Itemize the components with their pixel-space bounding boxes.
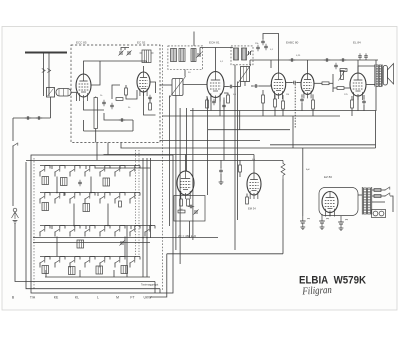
svg-text:EZ 80: EZ 80	[324, 175, 332, 179]
svg-text:ZF = 468 kHz: ZF = 468 kHz	[178, 234, 197, 238]
wire box1 pin down c	[120, 143, 122, 149]
wire top small drop	[249, 60, 251, 65]
UKW tuner shield box (dashed)	[71, 45, 160, 143]
row4 bus	[40, 256, 136, 258]
wire drop d5	[192, 108, 194, 240]
wire V2 pins down	[143, 92, 145, 108]
capacitor C25 det row	[264, 44, 268, 50]
wire tube HT out	[329, 213, 331, 217]
coil L 121,265	[121, 266, 128, 274]
wire drop d7	[223, 98, 225, 161]
wire R3 up	[125, 85, 127, 88]
mains tap 1	[372, 189, 385, 191]
resistor R13 V6 cathode	[351, 100, 354, 108]
resistor R2	[116, 98, 123, 101]
coupling capacitor C14	[291, 81, 297, 85]
smoothing choke wire	[292, 145, 294, 148]
junction dots	[56, 192, 58, 194]
wire V6 top	[357, 60, 359, 73]
bus line heater	[160, 140, 260, 142]
wire V3 top bus	[200, 47, 233, 49]
wire below F1	[184, 70, 186, 77]
wire V6 anode to T1	[358, 66, 375, 73]
socket trimmer	[193, 209, 198, 214]
wire interstage	[112, 85, 120, 99]
svg-text:M: M	[116, 296, 119, 300]
heater loop wire	[319, 188, 358, 216]
wire T1 bottom to bus	[366, 84, 375, 86]
resistor R3	[125, 88, 128, 95]
V8 feed resistor	[239, 165, 242, 172]
wire transformer to tube	[358, 194, 362, 196]
rectifier tube V9	[322, 192, 338, 217]
capacitor C1 in AM lead	[25, 116, 31, 120]
svg-text:KE: KE	[54, 296, 59, 300]
V7 socket detail box	[174, 196, 205, 222]
wire horizontal to AM input	[13, 117, 51, 119]
svg-text:1M: 1M	[286, 94, 289, 96]
grid stopper R9	[337, 87, 344, 90]
power transformer T2 core left	[361, 187, 363, 215]
wire V3 screen	[224, 93, 228, 95]
coil L 103,178	[103, 178, 110, 186]
variable coil L3 with core	[241, 67, 250, 82]
wire drop d9	[237, 82, 239, 221]
capacitor C6	[119, 118, 125, 122]
collector wire outer 1	[15, 223, 155, 282]
wire R1 top	[95, 97, 97, 98]
bus line h1	[121, 147, 376, 149]
row1 drops	[51, 166, 53, 170]
switch contact 115,263	[114, 260, 119, 264]
AVC dashed line	[294, 84, 296, 128]
F2 secondary coil	[242, 48, 247, 60]
wire drop d2	[175, 96, 177, 251]
wire speaker return	[375, 87, 377, 112]
capacitor C21	[253, 84, 259, 88]
wire V3 pin drop b	[219, 97, 221, 116]
bus line h2	[270, 144, 376, 146]
resistor R8	[322, 82, 329, 85]
HT feed vertical	[302, 148, 304, 216]
wire V4 out	[286, 82, 292, 84]
svg-text:Tastenaggregat: Tastenaggregat	[141, 284, 159, 287]
dashed shield line	[162, 45, 164, 291]
switch contact 85,232	[84, 229, 89, 233]
svg-text:EM 34: EM 34	[248, 207, 256, 211]
wire UKW out to L4	[160, 84, 172, 86]
switch box vertical v4	[126, 226, 128, 278]
capacitor C2 in AM lead	[36, 116, 42, 120]
switch contact 130,263	[129, 260, 134, 264]
wire V5 out	[314, 82, 322, 84]
wire V5 top	[307, 60, 309, 74]
capacitor C15	[300, 97, 304, 103]
svg-text:FT: FT	[130, 296, 134, 300]
wire box bottom link	[84, 130, 134, 132]
return bus left drop	[150, 254, 167, 297]
capacitor C7	[212, 99, 216, 105]
row2 resistor	[119, 201, 122, 207]
electrolytic C17	[300, 216, 310, 227]
electrolytic C19	[338, 216, 348, 228]
resistor R11	[282, 101, 285, 109]
svg-text:EL 84: EL 84	[353, 41, 361, 45]
wire drop d6	[207, 98, 209, 196]
socket cap	[188, 205, 194, 209]
F2 trimmer	[247, 50, 252, 55]
capacitor C12	[334, 63, 338, 69]
wire V2 right	[150, 82, 156, 93]
coil L 83,203	[83, 204, 90, 212]
band switch assembly outline	[31, 155, 173, 293]
switch contact 55,199	[54, 196, 59, 200]
switch contact 40,172	[39, 169, 44, 173]
switch contact 40,199	[39, 196, 44, 200]
wire V4 left grid	[270, 84, 272, 86]
switch box bottom joins	[154, 282, 156, 294]
switch contact 115,232	[114, 229, 119, 233]
AF tube V5	[301, 74, 314, 99]
grid resistor R1	[94, 98, 97, 129]
detector branch	[220, 160, 222, 168]
switch contact 130,232	[129, 229, 134, 233]
coil L 42,265	[42, 266, 49, 274]
volume pot R7	[341, 71, 344, 80]
switch contact 100,172	[99, 169, 104, 173]
wire V2 anode down	[144, 108, 156, 115]
capacitor C4	[110, 103, 114, 109]
wire V7 top	[185, 155, 187, 172]
fuse Si1	[374, 189, 381, 192]
switch contact 40,232	[39, 229, 44, 233]
wire drop d4	[186, 108, 188, 171]
ganged tuning dashed link b	[138, 150, 140, 256]
switch contact 100,199	[99, 196, 104, 200]
row3 trimmer	[119, 240, 124, 245]
row2 drops	[63, 193, 65, 197]
wire R3 to V2	[126, 90, 137, 99]
bus line h3	[104, 154, 255, 156]
antenna feedline right	[48, 53, 50, 97]
capacitor C16	[362, 99, 366, 105]
switch mechanics dashed	[33, 158, 35, 290]
mixer tube V7	[177, 171, 194, 199]
bus line B+ upper	[190, 110, 376, 112]
svg-text:Filigran: Filigran	[301, 285, 332, 298]
F1 trimmer	[196, 52, 201, 57]
switch contact 70,232	[69, 229, 74, 233]
svg-text:ELBIA W579K: ELBIA W579K	[299, 275, 366, 287]
switch contact 85,263	[84, 260, 89, 264]
power transformer T2 secondary	[368, 188, 371, 214]
vertical feeder x240	[239, 111, 241, 130]
resistor R15 in box1	[149, 103, 152, 110]
voltage selector plug	[372, 210, 386, 218]
wire V8 top	[253, 155, 255, 174]
input filter coil L1	[56, 89, 71, 97]
resistor R14 dropper	[281, 160, 285, 178]
resistor R16 AM det	[262, 95, 265, 103]
wire down left edge	[12, 118, 14, 139]
svg-text:KL: KL	[75, 296, 79, 300]
V8 pin resistor	[246, 197, 249, 204]
ganged tuning dashed link a	[135, 150, 137, 256]
wire box1 pin down b	[107, 143, 109, 155]
svg-text:EABC 80: EABC 80	[286, 41, 299, 45]
earth terminal	[13, 221, 18, 224]
F1 secondary coil	[179, 49, 185, 62]
switch contact 100,232	[99, 229, 104, 233]
wire T1 top feed	[375, 60, 377, 65]
trimmer CT2	[126, 50, 131, 55]
power transformer T2 primary	[364, 188, 367, 214]
row4 contact drops	[45, 270, 47, 277]
capacitor C10 on bus	[324, 58, 330, 62]
inter-row drop a	[56, 177, 58, 193]
inter-row drop f	[124, 237, 126, 257]
antenna A1 dipole bar	[25, 51, 67, 53]
capacitor C13	[289, 58, 295, 62]
switch contact 85,199	[84, 196, 89, 200]
B+ top bus	[271, 59, 378, 61]
switch contact 115,172	[114, 169, 119, 173]
switch contact 85,172	[84, 169, 89, 173]
switch contact 100,263	[99, 260, 104, 264]
wire socket out	[189, 221, 191, 238]
power transformer core right	[371, 187, 373, 215]
capacitor C5	[148, 95, 152, 101]
coil L 42,176	[42, 177, 49, 185]
switch contact 115,199	[114, 196, 119, 200]
coil L 60,177	[61, 178, 68, 186]
output pentode V6	[350, 73, 366, 100]
wire dropper down	[282, 178, 284, 253]
fuse Si2	[374, 195, 381, 198]
magic eye V8	[247, 173, 261, 199]
triode V2	[137, 72, 150, 96]
antenna feedline left	[43, 53, 45, 97]
switch contact 70,172	[69, 169, 74, 173]
switch box vertical v3	[150, 158, 152, 238]
IF transformer can F2 (dashed)	[231, 46, 253, 65]
capacitor C22 top right	[364, 53, 368, 59]
wire drop d8	[234, 65, 236, 250]
feedline break marks	[42, 69, 51, 73]
F2 primary coil	[234, 48, 239, 60]
switch S1 antenna	[12, 143, 17, 147]
bus line AVC	[208, 129, 290, 131]
triode-diode V4	[271, 73, 285, 99]
capacitor C9	[261, 39, 265, 45]
coil L 68,266	[69, 267, 76, 275]
wire V3 pin drop a	[210, 96, 212, 111]
wire V1 anode top bus	[84, 61, 147, 74]
svg-text:8µF: 8µF	[306, 169, 310, 171]
svg-text:EC 92: EC 92	[137, 41, 146, 45]
switch contact 70,263	[69, 260, 74, 264]
mid bus 2 inside switch box	[33, 242, 150, 244]
wire V4 grid cap	[263, 34, 279, 74]
wire box1 inner	[76, 92, 78, 101]
wire V6 screen	[357, 96, 359, 111]
wire coil to tube V1 grid	[71, 91, 77, 93]
oscillator coil L4 with core	[172, 79, 183, 96]
switch contact 130,172	[129, 169, 134, 173]
collector wire outer 2	[26, 162, 160, 289]
mid bus inside switch box	[33, 237, 218, 239]
capacitor C20 below V3	[222, 103, 226, 109]
capacitor C24 det row	[256, 45, 260, 51]
bus line B+ lower	[162, 115, 340, 117]
pentode V3	[207, 72, 224, 102]
socket resistor Rb	[187, 199, 190, 206]
wire trimmer feed	[121, 48, 129, 51]
switch contact 55,232	[54, 229, 59, 233]
coil L 77,240	[77, 240, 84, 248]
antenna input box	[47, 88, 55, 98]
wire V1 plate right	[91, 61, 100, 85]
svg-text:ECH 81: ECH 81	[209, 41, 220, 45]
svg-text:UKW: UKW	[144, 296, 153, 300]
wire bottom mesh	[104, 113, 133, 120]
resistor R12 V5 anode load	[312, 100, 315, 109]
capacitor C11 on bus	[340, 58, 346, 62]
bus line h5	[95, 167, 150, 169]
capacitor bank r1	[78, 180, 82, 186]
wire antenna tap down	[50, 97, 52, 118]
row1 bus	[40, 165, 136, 167]
svg-text:L: L	[97, 296, 99, 300]
svg-text:ECC 85: ECC 85	[76, 41, 87, 45]
row3 drops	[51, 226, 53, 230]
wire V3 anode up	[215, 48, 217, 72]
wire to antenna terminals	[12, 146, 14, 206]
F1 primary coil	[171, 49, 177, 62]
electrolytic C18	[319, 214, 329, 227]
wire V1 cathode down	[84, 101, 105, 110]
speaker LS	[383, 66, 387, 86]
socket resistor R750	[178, 210, 185, 213]
wire heater loop to electrolytics	[321, 214, 323, 216]
wire L4 to V3 grid	[183, 84, 207, 86]
mains tap 3	[372, 201, 385, 203]
wire drop d3	[179, 108, 181, 264]
inter-row drop c	[73, 204, 75, 226]
triode V1	[76, 74, 91, 101]
return bus left	[167, 253, 240, 255]
wire box1 pin down a	[96, 143, 98, 161]
collector wire row4	[45, 276, 150, 278]
wire F2 down	[244, 82, 246, 87]
bus line h4	[26, 159, 283, 161]
wire V3 out right	[224, 86, 229, 88]
UKW osc coil L2	[142, 50, 151, 63]
switch box vertical v1	[142, 158, 144, 277]
row2 bus	[40, 192, 136, 194]
inter-row drop e	[56, 237, 58, 257]
screen resistor R4	[227, 95, 230, 103]
mains cord	[390, 196, 393, 212]
inter-row drop d	[107, 204, 109, 226]
F1 right coil pair	[191, 49, 196, 62]
row3 bus	[40, 225, 152, 227]
capacitor C8	[228, 85, 234, 89]
svg-text:T/A: T/A	[30, 296, 36, 300]
coil L 42,202	[42, 203, 49, 211]
switch box vertical v2	[146, 158, 148, 277]
wire R1 bottom to box edge	[95, 129, 97, 143]
switch contact 40,263	[39, 260, 44, 264]
switch contact 130,199	[129, 196, 134, 200]
wire mesh drop	[132, 120, 134, 131]
return bus bottom	[240, 253, 283, 255]
capacitor C23 top right	[358, 53, 362, 59]
capacitor C3	[102, 100, 106, 106]
mains tap 2	[372, 195, 385, 197]
vertical feeder x293	[292, 116, 294, 145]
trimmer CT1	[118, 50, 123, 55]
coil L 96,266	[96, 266, 103, 274]
wire drop d1	[169, 96, 171, 227]
wire bus left drop	[270, 60, 272, 68]
resistor R6 coupling	[340, 69, 347, 72]
resistor R10 V4 cathode	[274, 99, 277, 107]
inter-row drop b	[90, 177, 92, 193]
switch contact 55,172	[54, 169, 59, 173]
wire V2 to coil	[143, 66, 145, 72]
output transformer T1	[374, 65, 376, 87]
socket resistor Ra	[180, 199, 183, 206]
antenna terminal socket	[13, 208, 17, 212]
switch contact 55,263	[54, 260, 59, 264]
IF transformer can F1 (dashed)	[168, 46, 203, 70]
cathode resistor R5	[206, 100, 209, 108]
wire can F1 top feed	[193, 32, 195, 46]
switch contact 70,199	[69, 196, 74, 200]
switch contact 145,232	[144, 229, 149, 233]
bus corner right	[375, 111, 377, 149]
